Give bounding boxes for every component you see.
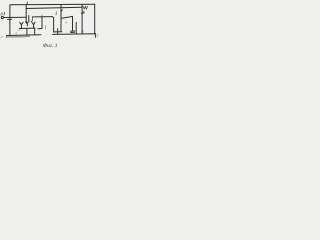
svg-text:1: 1 <box>55 11 58 17</box>
svg-text:7: 7 <box>96 35 98 39</box>
svg-text:4: 4 <box>26 0 28 5</box>
svg-text:бг: бг <box>18 29 20 32</box>
svg-text:Фиг. 1: Фиг. 1 <box>43 43 58 49</box>
